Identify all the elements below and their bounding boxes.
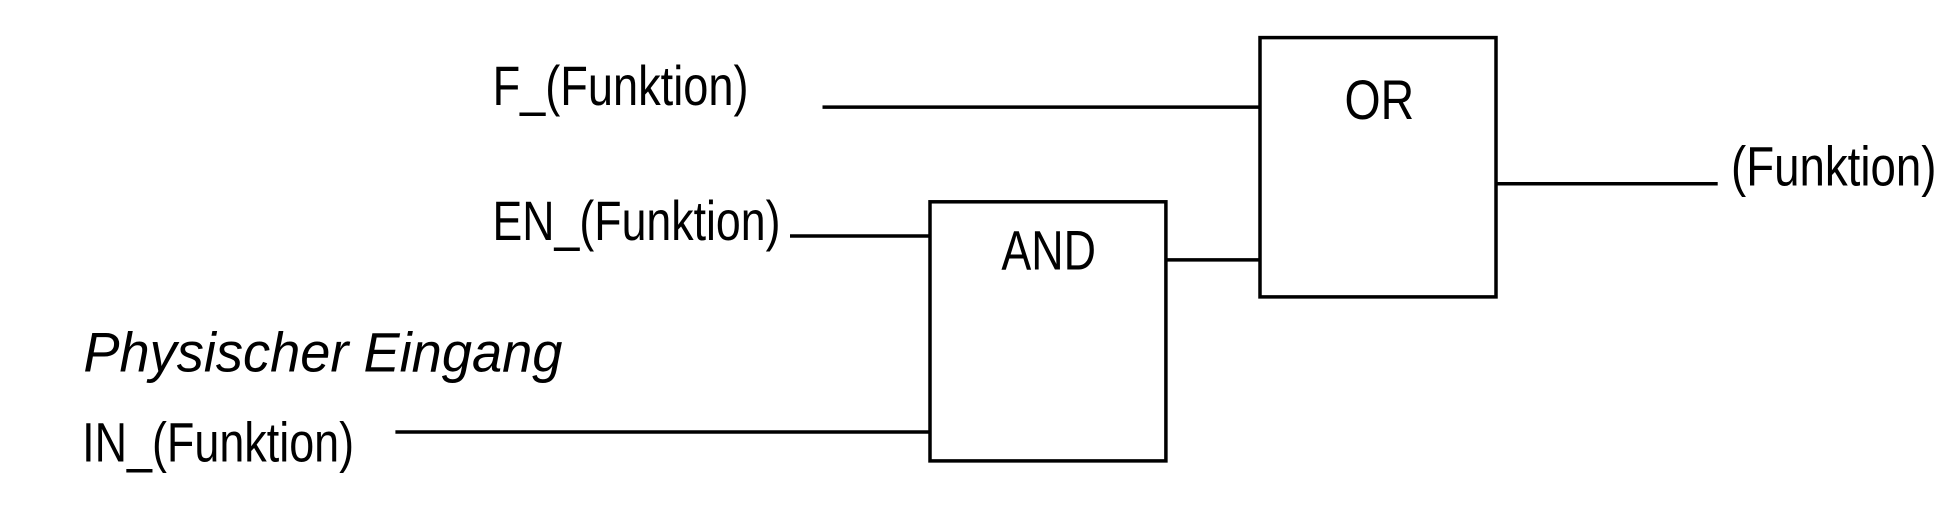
wire IN_ input to AND gate <box>395 430 931 434</box>
AND gate box <box>930 202 1166 461</box>
wire F_ input to OR gate <box>823 105 1262 109</box>
svg-text:EN_(Funktion): EN_(Funktion) <box>493 190 781 252</box>
svg-text:(Funktion): (Funktion) <box>1731 136 1937 198</box>
wire EN_ input to AND gate <box>790 234 931 238</box>
svg-text:F_(Funktion): F_(Funktion) <box>493 55 749 117</box>
wire AND output to OR gate input <box>1165 258 1261 262</box>
svg-text:AND: AND <box>1001 219 1096 281</box>
OR gate box <box>1260 38 1496 297</box>
svg-text:IN_(Funktion): IN_(Funktion) <box>82 411 354 473</box>
wire OR gate output <box>1495 182 1718 186</box>
svg-text:Physischer Eingang: Physischer Eingang <box>83 322 562 384</box>
svg-text:OR: OR <box>1345 69 1415 131</box>
